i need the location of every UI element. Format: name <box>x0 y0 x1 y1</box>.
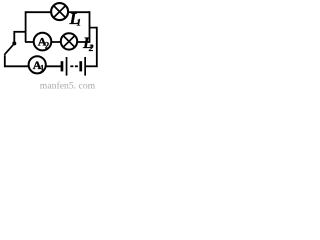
wire top branch <box>25 11 90 13</box>
svg-text:1: 1 <box>40 64 45 74</box>
wire switch horizontal <box>14 31 26 33</box>
wire middle branch <box>25 41 90 43</box>
label L2 <box>82 35 94 54</box>
switch S lever (open) <box>4 45 13 55</box>
wire right rail upper <box>89 11 91 43</box>
wire bottom branch left <box>4 65 61 67</box>
ammeter A1 <box>29 56 46 73</box>
wire left junction vertical <box>25 11 27 42</box>
battery B dashed link dash 2 <box>75 65 78 67</box>
battery B negative plate cell 2 <box>79 61 82 71</box>
svg-text:1: 1 <box>76 18 81 28</box>
svg-text:manfen5. com: manfen5. com <box>40 80 96 91</box>
wire bottom branch right <box>86 65 98 67</box>
watermark text <box>40 80 96 91</box>
battery B dashed link dash 1 <box>70 65 73 67</box>
background <box>0 0 110 91</box>
label L1 <box>69 9 82 28</box>
wire right rail lower <box>96 27 98 67</box>
svg-text:2: 2 <box>88 44 94 54</box>
battery B positive plate cell 2 <box>84 57 86 76</box>
wire jog to battery rail <box>90 27 97 29</box>
wire switch vertical <box>13 31 15 42</box>
battery B negative plate cell 1 <box>61 61 64 71</box>
lamp L2 <box>61 33 77 49</box>
battery B positive plate cell 1 <box>66 57 68 76</box>
wire left rail <box>4 55 6 67</box>
svg-text:2: 2 <box>45 41 50 51</box>
switch S pivot dot (junction) <box>12 41 16 45</box>
lamp L1 <box>51 3 68 20</box>
ammeter A2 <box>34 33 52 51</box>
